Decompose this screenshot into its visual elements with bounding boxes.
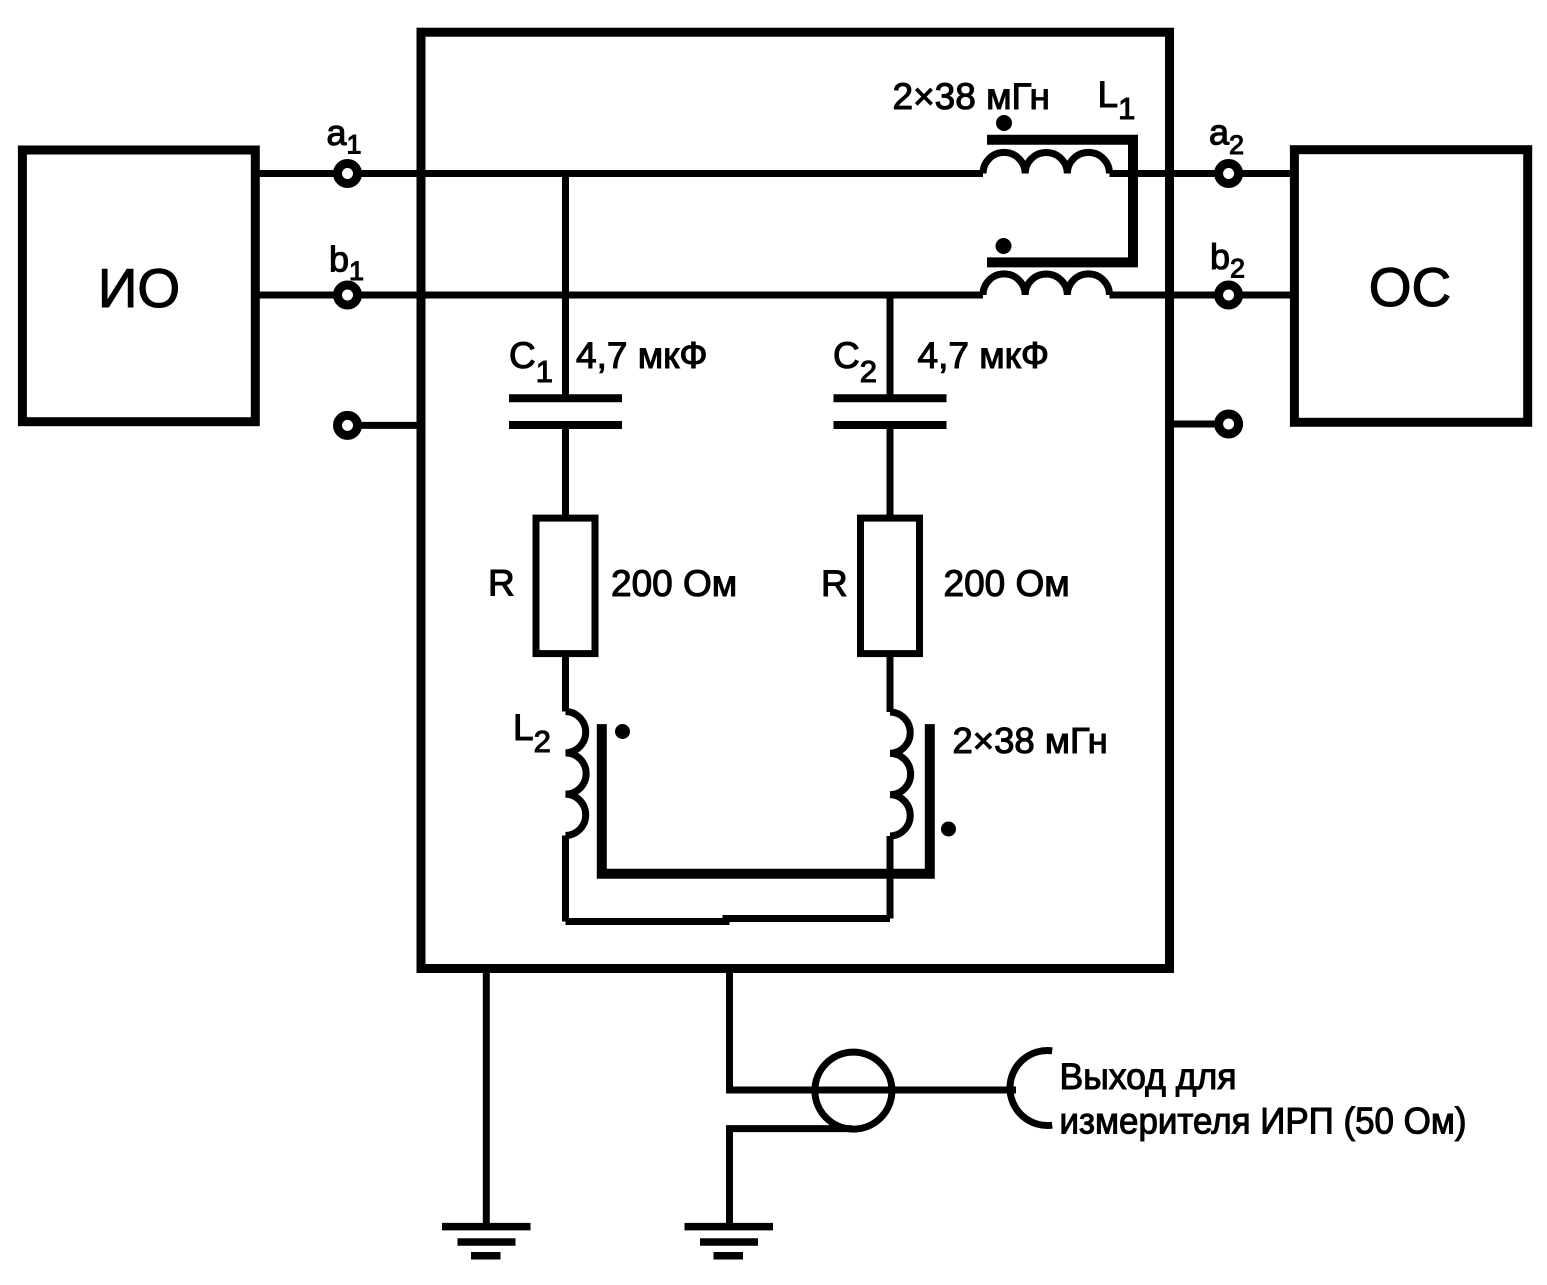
inductor L2 winding 1 bbox=[566, 712, 587, 836]
svg-text:4,7 мкФ: 4,7 мкФ bbox=[576, 335, 707, 376]
wire L2 bottom link right bbox=[723, 915, 891, 922]
mating connector arc bbox=[1010, 1051, 1052, 1126]
svg-text:a2: a2 bbox=[1209, 112, 1244, 161]
svg-text:b2: b2 bbox=[1210, 236, 1245, 284]
label L2 value 2x38 мГн bbox=[953, 720, 1108, 761]
wire ground stub right bbox=[1170, 421, 1229, 428]
inductor L2 core bbox=[602, 724, 930, 874]
polarity dot L2 winding 1 bbox=[615, 724, 630, 739]
resistor R2 bbox=[861, 518, 920, 654]
label output line 2 bbox=[1060, 1101, 1467, 1142]
wire enclosure to ground 1 bbox=[483, 969, 490, 1227]
terminal a1 bbox=[338, 164, 358, 184]
wire R2 to L2 bbox=[887, 654, 894, 712]
wire b-line right bbox=[1110, 292, 1295, 299]
svg-text:4,7 мкФ: 4,7 мкФ bbox=[918, 335, 1049, 376]
inductor L1 core bbox=[987, 140, 1133, 263]
wire L2 bottom link left bbox=[566, 918, 730, 925]
label R1 bbox=[488, 563, 515, 604]
svg-text:200 Ом: 200 Ом bbox=[944, 563, 1070, 604]
terminal b1 bbox=[338, 285, 358, 305]
svg-text:R: R bbox=[488, 563, 515, 604]
wire enclosure to output connector bbox=[730, 969, 1017, 1091]
wire C2 upper lead bbox=[887, 295, 894, 398]
svg-text:C1: C1 bbox=[509, 335, 553, 389]
box ОС bbox=[1294, 150, 1527, 423]
inductor L1 winding a bbox=[983, 152, 1110, 173]
inductor L2 winding 2 bbox=[890, 712, 911, 836]
label ОС bbox=[1369, 256, 1452, 318]
polarity dot L1 winding b bbox=[996, 238, 1012, 254]
label ИО bbox=[98, 257, 180, 319]
svg-text:ИО: ИО bbox=[98, 257, 180, 319]
svg-text:ОС: ОС bbox=[1369, 256, 1452, 318]
svg-text:2×38 мГн: 2×38 мГн bbox=[893, 76, 1050, 117]
coaxial connector circle bbox=[815, 1052, 892, 1129]
label R2 bbox=[821, 563, 848, 604]
svg-text:b1: b1 bbox=[329, 238, 364, 286]
label a2 bbox=[1209, 112, 1244, 161]
ground 2 bbox=[685, 1227, 774, 1256]
svg-text:R: R bbox=[821, 563, 848, 604]
terminal b2 bbox=[1219, 285, 1239, 305]
label output line 1 bbox=[1060, 1056, 1237, 1097]
box ИО bbox=[22, 150, 255, 422]
label C2 bbox=[833, 335, 877, 389]
label C1 value 4,7 мкФ bbox=[576, 335, 707, 376]
label R1 value 200 Ом bbox=[611, 563, 737, 604]
ground 1 bbox=[442, 1227, 531, 1256]
svg-text:C2: C2 bbox=[833, 335, 877, 389]
svg-text:L2: L2 bbox=[513, 707, 551, 759]
wire a-line right bbox=[1110, 170, 1295, 177]
label b1 bbox=[329, 238, 364, 286]
wire L2 winding1 lower lead bbox=[562, 836, 569, 922]
capacitor C2 bbox=[834, 398, 947, 425]
label R2 value 200 Ом bbox=[944, 563, 1070, 604]
box LISN enclosure bbox=[421, 32, 1170, 968]
inductor L1 winding b bbox=[983, 274, 1110, 295]
svg-text:2×38 мГн: 2×38 мГн bbox=[953, 720, 1108, 761]
label C1 bbox=[509, 335, 553, 389]
wire C1 to R1 bbox=[562, 425, 569, 518]
label L1 value 2x38 мГн bbox=[893, 76, 1050, 117]
label b2 bbox=[1210, 236, 1245, 284]
label C2 value 4,7 мкФ bbox=[918, 335, 1049, 376]
svg-text:измерителя ИРП (50 Ом): измерителя ИРП (50 Ом) bbox=[1060, 1101, 1467, 1142]
terminal ground right bbox=[1219, 414, 1239, 434]
capacitor C1 bbox=[509, 398, 622, 425]
wire L2 winding2 lower lead bbox=[887, 836, 894, 919]
svg-text:a1: a1 bbox=[327, 112, 362, 160]
label L2 bbox=[513, 707, 551, 759]
wire b-line left bbox=[255, 292, 983, 299]
polarity dot L2 winding 2 bbox=[941, 822, 956, 837]
wire output shield to ground 2 bbox=[730, 1129, 853, 1227]
wire a-line left bbox=[255, 170, 983, 177]
resistor R1 bbox=[536, 518, 595, 654]
terminal ground left bbox=[338, 415, 358, 435]
svg-text:200 Ом: 200 Ом bbox=[611, 563, 737, 604]
wire R1 to L2 bbox=[562, 654, 569, 712]
terminal a2 bbox=[1219, 164, 1239, 184]
wire ground stub left bbox=[348, 422, 422, 429]
label a1 bbox=[327, 112, 362, 160]
polarity dot L1 winding a bbox=[996, 115, 1012, 131]
wire C1 upper lead bbox=[562, 174, 569, 399]
svg-text:L1: L1 bbox=[1098, 74, 1136, 126]
svg-text:Выход для: Выход для bbox=[1060, 1056, 1237, 1097]
label L1 bbox=[1098, 74, 1136, 126]
wire C2 to R2 bbox=[887, 425, 894, 518]
